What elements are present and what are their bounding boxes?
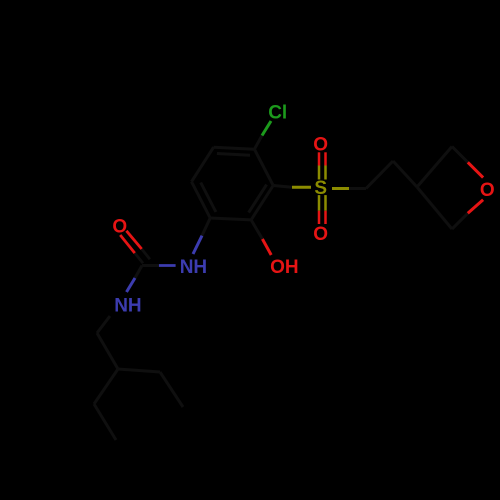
benzene ring C5-C4 bond — [214, 147, 255, 149]
C7=O double bond red halves — [120, 231, 142, 253]
bond N2 blue half — [127, 278, 136, 292]
oxetane Cbot-O red half — [468, 200, 483, 214]
bond C9-C12 ethyl arm2 — [118, 369, 160, 372]
S=O top double bond olive halves — [319, 166, 326, 180]
bond C4 to Cl black half — [254, 136, 262, 150]
svg-text:NH: NH — [114, 296, 141, 317]
bond C2 to OH black half — [251, 220, 262, 239]
bond C8-C9 — [97, 333, 118, 369]
benzene ring C3-C2 bond — [251, 186, 273, 220]
oxetane C3-Ctop bond — [417, 147, 452, 188]
benzene ring C1-C6 bond — [192, 182, 211, 218]
S=O bottom double bond olive halves — [319, 195, 326, 211]
bond CH2-C3oxetane — [393, 161, 417, 187]
bond CH2 black half — [349, 187, 366, 190]
benzene inner double line C3-C2 — [249, 185, 267, 213]
bond C7 to N2 black half — [135, 266, 142, 279]
bond C3 to S black half — [273, 186, 292, 188]
benzene inner double line C5-C4 — [217, 154, 250, 156]
svg-text:NH: NH — [180, 257, 207, 278]
svg-text:Cl: Cl — [268, 103, 287, 124]
S=O top double bond red halves — [319, 152, 326, 165]
benzene ring C2-C1 bond — [210, 218, 251, 220]
bond C7 black half — [142, 264, 159, 267]
C7=O double bond black halves — [135, 249, 150, 263]
bond C10-C11 ethyl arm1 — [94, 404, 116, 440]
benzene ring C6-C5 bond — [192, 147, 214, 182]
bond Cl green half — [262, 121, 271, 136]
svg-text:OH: OH — [270, 257, 299, 278]
oxetane C3-Cbot bond — [417, 187, 452, 229]
oxetane Ctop-O black half — [452, 147, 468, 163]
svg-text:O: O — [313, 134, 328, 155]
bond OH red half — [262, 239, 271, 255]
svg-text:O: O — [112, 217, 127, 238]
bond C1 to N black half — [202, 218, 210, 236]
bond N2 to C8 — [97, 316, 110, 333]
benzene ring C4-C3 bond — [254, 149, 273, 185]
bond CH2-CH2 — [366, 161, 393, 189]
svg-text:O: O — [313, 224, 328, 245]
bond S to CH2 olive half — [332, 187, 349, 190]
bond C9-C10 ethyl arm1 — [94, 369, 118, 404]
S=O bottom double bond red halves — [319, 211, 326, 224]
svg-text:O: O — [480, 180, 495, 201]
oxetane Cbot-O black half — [452, 213, 468, 229]
bond N blue half diagonal — [193, 236, 202, 254]
bond N to C7 blue half — [159, 264, 176, 267]
benzene inner double line C1-C6 — [201, 183, 216, 213]
bond C12-C13 ethyl arm2 — [160, 372, 183, 407]
oxetane Ctop-O red half — [468, 162, 483, 177]
bond to S olive half — [292, 186, 311, 189]
